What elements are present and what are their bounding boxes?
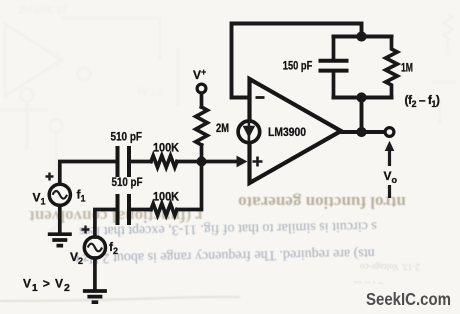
wire 2M to summing node xyxy=(200,145,204,162)
svg-text:100K: 100K xyxy=(153,190,179,204)
ground (V1) xyxy=(48,234,72,245)
op-amp U1 LM3900 xyxy=(250,79,342,183)
output terminal (open circle) xyxy=(385,128,394,137)
Vo lower tick line xyxy=(388,185,391,198)
V1 plus polarity mark xyxy=(46,173,54,181)
V+ supply terminal xyxy=(197,84,206,93)
svg-text:~ - -- ---: ~ - -- --- xyxy=(353,278,383,288)
node: output junction xyxy=(356,127,366,137)
svg-text:510 pF: 510 pF xyxy=(111,130,143,144)
resistor 1M xyxy=(386,37,398,98)
arrowhead into plus input xyxy=(237,156,248,168)
summing node junction xyxy=(197,157,207,167)
resistor 2M xyxy=(196,107,208,145)
capacitor 150 pF xyxy=(332,37,336,59)
voltage source V1 xyxy=(49,184,70,205)
wire summing node to op-amp plus input xyxy=(202,160,238,164)
feedback network top rail xyxy=(334,35,392,39)
wire upper 100K to summing node xyxy=(177,160,202,164)
svg-text:SeekIC.com: SeekIC.com xyxy=(366,289,451,309)
resistor 100K (lower) xyxy=(151,204,177,216)
scan crease (decorative) xyxy=(0,297,240,301)
resistor 100K (upper) xyxy=(151,156,177,168)
voltage source V2 xyxy=(84,237,105,258)
svg-text:2M OSC 12: 2M OSC 12 xyxy=(18,5,66,16)
wire V1 top to upper capacitor xyxy=(60,162,116,185)
svg-text:2M: 2M xyxy=(216,121,229,135)
current source symbol inside op-amp xyxy=(238,121,260,143)
background bleed-through ghost artwork (decorative) xyxy=(0,5,456,243)
background bleed-through text (decorative, printed through page, rotated 180) xyxy=(29,193,420,288)
capacitor 510 pF (upper) xyxy=(118,146,130,177)
node: feedback top junction xyxy=(356,31,366,41)
wire lower 100K up to summing node xyxy=(177,162,202,210)
wire lower capacitor to lower 100K xyxy=(131,208,151,212)
ground (V2) xyxy=(83,291,107,302)
wire V2 top to lower capacitor xyxy=(95,210,116,238)
wire upper capacitor to upper 100K xyxy=(131,160,151,164)
wire V1 bottom to ground xyxy=(58,205,62,232)
svg-text:510 pF: 510 pF xyxy=(112,175,143,189)
wire feedback bottom junction down to output node xyxy=(360,98,364,133)
wire op-amp output to terminal xyxy=(341,130,385,134)
Vo output arrow xyxy=(388,150,391,166)
svg-text:ntrol function generato: ntrol function generato xyxy=(238,193,406,212)
node: feedback bottom junction xyxy=(356,92,366,102)
capacitor 510 pF (lower) xyxy=(118,194,130,225)
svg-text:2-13. Voltage-co: 2-13. Voltage-co xyxy=(360,262,420,272)
minus input sign xyxy=(256,96,265,99)
wire V2 bottom to ground xyxy=(93,258,97,289)
svg-text:100K: 100K xyxy=(153,140,179,154)
svg-text:LM3900: LM3900 xyxy=(268,125,306,139)
feedback network bottom rail xyxy=(334,96,392,100)
svg-text:1M: 1M xyxy=(401,61,413,75)
V2 plus polarity mark xyxy=(82,226,90,234)
feedback wire from minus input up and over to RC network xyxy=(232,24,362,98)
wire V+ to 2M xyxy=(200,93,204,107)
svg-text:Vy 2.2: Vy 2.2 xyxy=(136,87,162,98)
plus input sign xyxy=(253,157,263,167)
svg-text:150 pF: 150 pF xyxy=(283,59,313,73)
